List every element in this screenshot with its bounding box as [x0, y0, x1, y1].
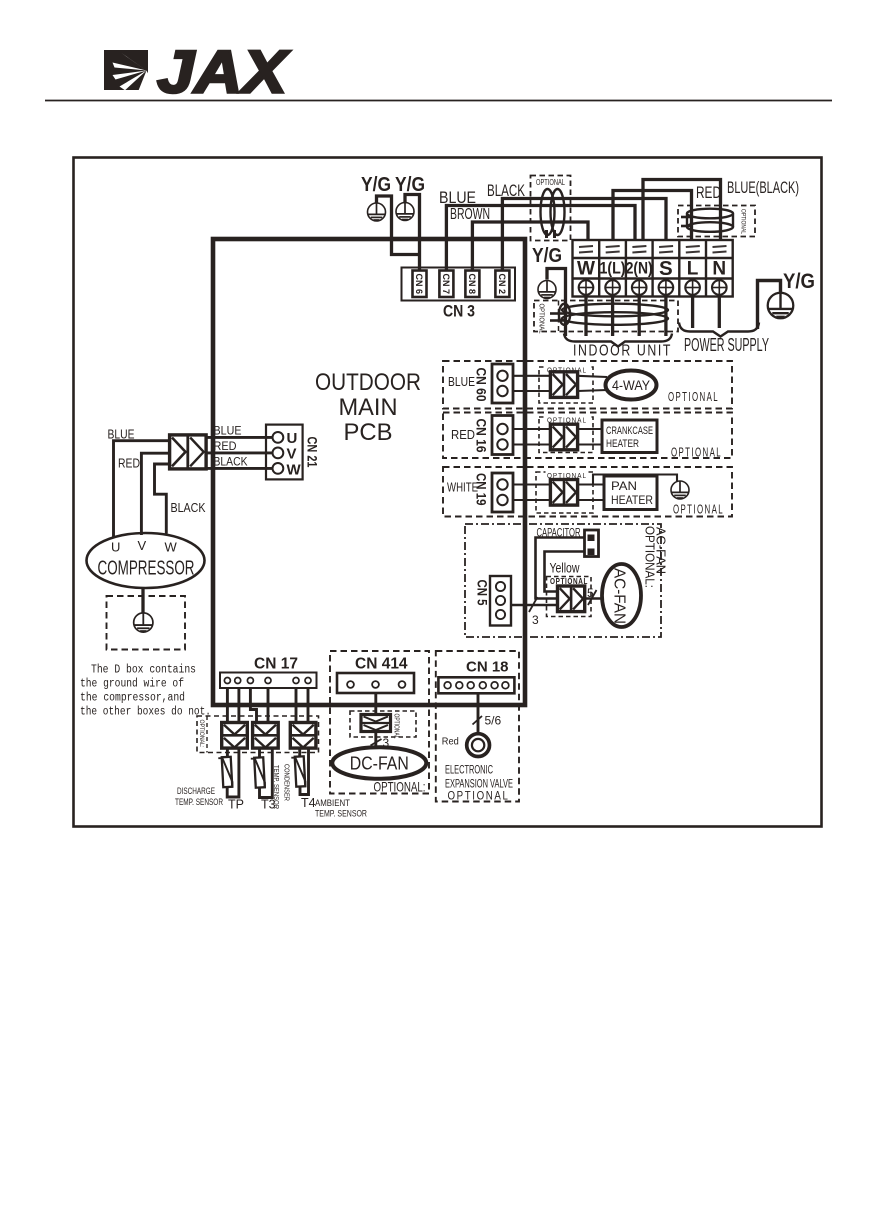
- svg-text:BLUE: BLUE: [108, 428, 135, 442]
- svg-text:PAN: PAN: [611, 479, 637, 493]
- svg-text:U: U: [111, 540, 120, 555]
- svg-text:BLUE: BLUE: [448, 375, 475, 389]
- svg-text:ELECTRONIC: ELECTRONIC: [445, 763, 493, 777]
- svg-text:TEMP. SENSOR: TEMP. SENSOR: [272, 765, 281, 809]
- svg-text:OPTIONAL: OPTIONAL: [671, 446, 722, 460]
- svg-text:CN 6: CN 6: [414, 274, 424, 295]
- svg-text:CN 2: CN 2: [497, 274, 507, 295]
- svg-text:CN 19: CN 19: [474, 473, 489, 506]
- svg-text:V: V: [287, 446, 297, 463]
- svg-text:CN 18: CN 18: [466, 659, 509, 676]
- svg-text:OPTIONAL:: OPTIONAL:: [374, 779, 426, 795]
- svg-text:OPTIONAL: OPTIONAL: [536, 178, 565, 187]
- svg-text:1(L): 1(L): [600, 260, 626, 278]
- svg-text:JAX: JAX: [157, 39, 291, 106]
- svg-text:V: V: [138, 538, 147, 553]
- svg-text:BLACK: BLACK: [171, 501, 207, 515]
- svg-text:CN 8: CN 8: [467, 274, 477, 295]
- svg-text:MAIN: MAIN: [339, 394, 398, 421]
- svg-text:Yellow: Yellow: [550, 561, 580, 576]
- svg-text:Y/G: Y/G: [361, 174, 391, 196]
- svg-text:CN 60: CN 60: [474, 368, 489, 402]
- svg-text:BLUE: BLUE: [439, 188, 476, 207]
- svg-text:4-WAY: 4-WAY: [612, 378, 650, 393]
- svg-text:DISCHARGE: DISCHARGE: [177, 786, 215, 797]
- svg-text:POWER SUPPLY: POWER SUPPLY: [684, 335, 769, 355]
- svg-text:TEMP. SENSOR: TEMP. SENSOR: [315, 809, 367, 820]
- svg-text:N: N: [712, 259, 726, 280]
- svg-text:HEATER: HEATER: [611, 493, 653, 507]
- svg-text:BLACK: BLACK: [487, 181, 525, 200]
- svg-text:BLUE(BLACK): BLUE(BLACK): [727, 178, 799, 197]
- svg-text:DC-FAN: DC-FAN: [350, 753, 409, 774]
- svg-text:3: 3: [532, 613, 539, 627]
- svg-text:5: 5: [587, 586, 594, 600]
- svg-text:HEATER: HEATER: [606, 438, 639, 450]
- svg-text:OUTDOOR: OUTDOOR: [315, 369, 421, 396]
- svg-text:TEMP. SENSOR: TEMP. SENSOR: [175, 797, 223, 808]
- svg-text:RED: RED: [214, 441, 237, 453]
- svg-text:OPTIONAL:: OPTIONAL:: [198, 720, 205, 748]
- svg-text:PCB: PCB: [344, 419, 393, 446]
- svg-text:2(N): 2(N): [626, 260, 653, 278]
- svg-text:CN 7: CN 7: [441, 274, 451, 295]
- svg-text:CN 16: CN 16: [474, 419, 489, 453]
- svg-text:OPTIONAL: OPTIONAL: [668, 390, 719, 404]
- svg-text:RED: RED: [451, 428, 475, 442]
- svg-text:RED: RED: [118, 457, 140, 471]
- svg-text:the compressor,and: the compressor,and: [80, 692, 185, 705]
- svg-text:5/6: 5/6: [485, 714, 502, 728]
- svg-text:CRANKCASE: CRANKCASE: [606, 425, 653, 437]
- svg-text:T4: T4: [301, 796, 316, 810]
- svg-text:WHITE: WHITE: [447, 481, 478, 495]
- svg-text:OPTIONAL: OPTIONAL: [538, 304, 547, 334]
- svg-text:CN 17: CN 17: [254, 656, 298, 673]
- svg-text:CN 21: CN 21: [305, 437, 320, 468]
- svg-text:W: W: [165, 540, 178, 555]
- svg-text:CN 3: CN 3: [443, 302, 475, 321]
- svg-text:BLACK: BLACK: [214, 457, 248, 469]
- svg-text:CN 5: CN 5: [475, 580, 490, 606]
- svg-text:Y/G: Y/G: [532, 245, 562, 267]
- svg-text:OPTIONAL: OPTIONAL: [740, 209, 747, 234]
- svg-text:RED: RED: [696, 183, 721, 202]
- svg-text:W: W: [577, 259, 595, 280]
- svg-text:U: U: [287, 430, 298, 447]
- svg-text:BROWN: BROWN: [450, 206, 490, 223]
- svg-text:L: L: [687, 259, 699, 280]
- svg-text:Y/G: Y/G: [783, 270, 815, 293]
- svg-text:AC-FAN: AC-FAN: [654, 527, 669, 574]
- svg-text:S: S: [659, 257, 673, 280]
- svg-text:The D box contains: The D box contains: [91, 664, 196, 677]
- svg-text:COMPRESSOR: COMPRESSOR: [98, 557, 195, 580]
- svg-text:CN 414: CN 414: [355, 656, 408, 673]
- svg-text:INDOOR UNIT: INDOOR UNIT: [573, 343, 672, 360]
- svg-text:OPTIONAL: OPTIONAL: [393, 714, 400, 739]
- svg-text:AC-FAN: AC-FAN: [611, 568, 628, 624]
- svg-text:OPTIONAL: OPTIONAL: [448, 789, 510, 803]
- svg-text:Red: Red: [442, 736, 459, 748]
- svg-text:Y/G: Y/G: [395, 174, 425, 196]
- svg-text:CONDENSER: CONDENSER: [283, 764, 292, 801]
- svg-text:W: W: [287, 462, 302, 479]
- svg-text:AMBIENT: AMBIENT: [315, 798, 350, 809]
- svg-text:TP: TP: [228, 798, 244, 812]
- svg-text:BLUE: BLUE: [214, 426, 242, 438]
- svg-text:OPTIONAL: OPTIONAL: [673, 503, 724, 517]
- svg-text:the ground wire of: the ground wire of: [80, 678, 184, 691]
- svg-text:the other boxes do not.: the other boxes do not.: [80, 706, 211, 719]
